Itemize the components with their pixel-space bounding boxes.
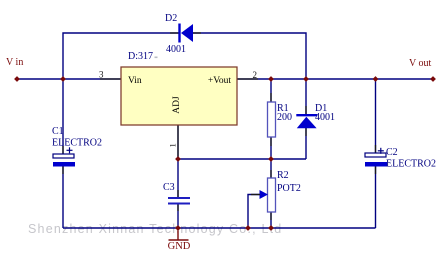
wire: C3 branch upper (177, 159, 179, 197)
R2 wiper arrow (260, 190, 269, 199)
svg-text:ADJ: ADJ (172, 96, 182, 114)
node GND junction (175, 225, 181, 231)
wire: input rail (17, 78, 121, 80)
node R1 top (268, 76, 274, 82)
wire: ADJ pin to rail (177, 125, 179, 159)
pin stubs (black) (63, 33, 376, 220)
C2 plus sign (378, 150, 384, 152)
wire: C2 branch lower (375, 166, 377, 228)
svg-text:4001: 4001 (315, 112, 335, 123)
node R2 bottom (268, 225, 274, 231)
svg-text:4001: 4001 (166, 44, 186, 55)
diode D2 symbol (180, 24, 194, 43)
svg-text:C3: C3 (163, 182, 175, 193)
wire: C1 branch upper (62, 79, 64, 154)
svg-text:+Vout: +Vout (208, 76, 231, 86)
wire: D1 branch upper (305, 79, 307, 114)
pin 3 stub of U1 (100, 78, 121, 80)
potentiometer R2 (268, 178, 276, 212)
pin 2 stub of U1 (237, 78, 258, 80)
svg-text:Vin: Vin (128, 76, 142, 86)
capacitor C3 (168, 198, 190, 204)
wire: R1 branch lower (270, 137, 272, 159)
svg-text:200: 200 (277, 112, 292, 123)
node C2 top (373, 76, 379, 82)
svg-text:1: 1 (168, 143, 178, 147)
D1 pin stubs (305, 106, 307, 114)
R2 wiper stub (251, 194, 260, 196)
ground symbol (169, 231, 189, 241)
node wiper bottom (245, 225, 251, 231)
svg-text:C2: C2 (386, 147, 398, 158)
wire: output rail (237, 78, 433, 80)
wire: bottom ground rail (63, 227, 376, 229)
svg-text:D:317: D:317 (128, 51, 153, 62)
node ADJ junction (175, 156, 181, 162)
node junction dots (14, 76, 436, 231)
C1 pin stubs (62, 146, 64, 154)
svg-text:2: 2 (253, 70, 258, 80)
node R1/R2 junction (268, 156, 274, 162)
svg-text:D2: D2 (165, 13, 177, 24)
svg-text:V in: V in (6, 57, 23, 68)
svg-text:ELECTRO2: ELECTRO2 (386, 159, 436, 170)
wire: top rail left segment (63, 33, 179, 79)
node Vin junction (60, 76, 66, 82)
svg-text:Shenzhen Xinnan Technology Co.: Shenzhen Xinnan Technology Co., Ltd (28, 222, 282, 236)
svg-text:V out: V out (409, 58, 432, 69)
wire: C1 branch lower (62, 166, 64, 228)
svg-text:R2: R2 (277, 170, 289, 181)
C2 pin stubs (375, 145, 377, 153)
wire: ADJ rail (178, 158, 306, 160)
capacitor C1 electrolytic (53, 147, 75, 166)
resistor R1 (268, 102, 276, 137)
C3 pin stubs (177, 190, 179, 197)
C1 plus sign (67, 149, 73, 151)
op-amp U1 regulator body D:317 (121, 67, 237, 125)
wire: C3 branch lower (177, 204, 179, 228)
wire: C2 branch upper (375, 79, 377, 153)
terminal V out (430, 76, 436, 82)
wire: R2 wiper link (248, 195, 260, 229)
terminal V in (14, 76, 20, 82)
R2 pin stubs (270, 170, 272, 178)
svg-text:3: 3 (99, 70, 104, 80)
wire: R1 branch upper (270, 79, 272, 102)
wire: R2 branch upper (270, 159, 272, 178)
D2 pin stubs (170, 32, 179, 34)
wire: top rail right segment (193, 33, 306, 79)
U1 designator tail mark (155, 57, 158, 59)
pin 1 (ADJ) stub of U1 (177, 125, 179, 157)
wire: R2 branch lower (270, 212, 272, 228)
svg-text:C1: C1 (52, 126, 64, 137)
wire: D1 branch lower (305, 128, 307, 159)
node D1 top (303, 76, 309, 82)
svg-text:ELECTRO2: ELECTRO2 (52, 138, 102, 149)
capacitor C2 electrolytic (365, 148, 387, 167)
svg-text:POT2: POT2 (277, 183, 301, 194)
svg-text:GND: GND (168, 241, 191, 252)
diode D1 symbol (296, 115, 317, 128)
R1 pin stubs (270, 93, 272, 102)
